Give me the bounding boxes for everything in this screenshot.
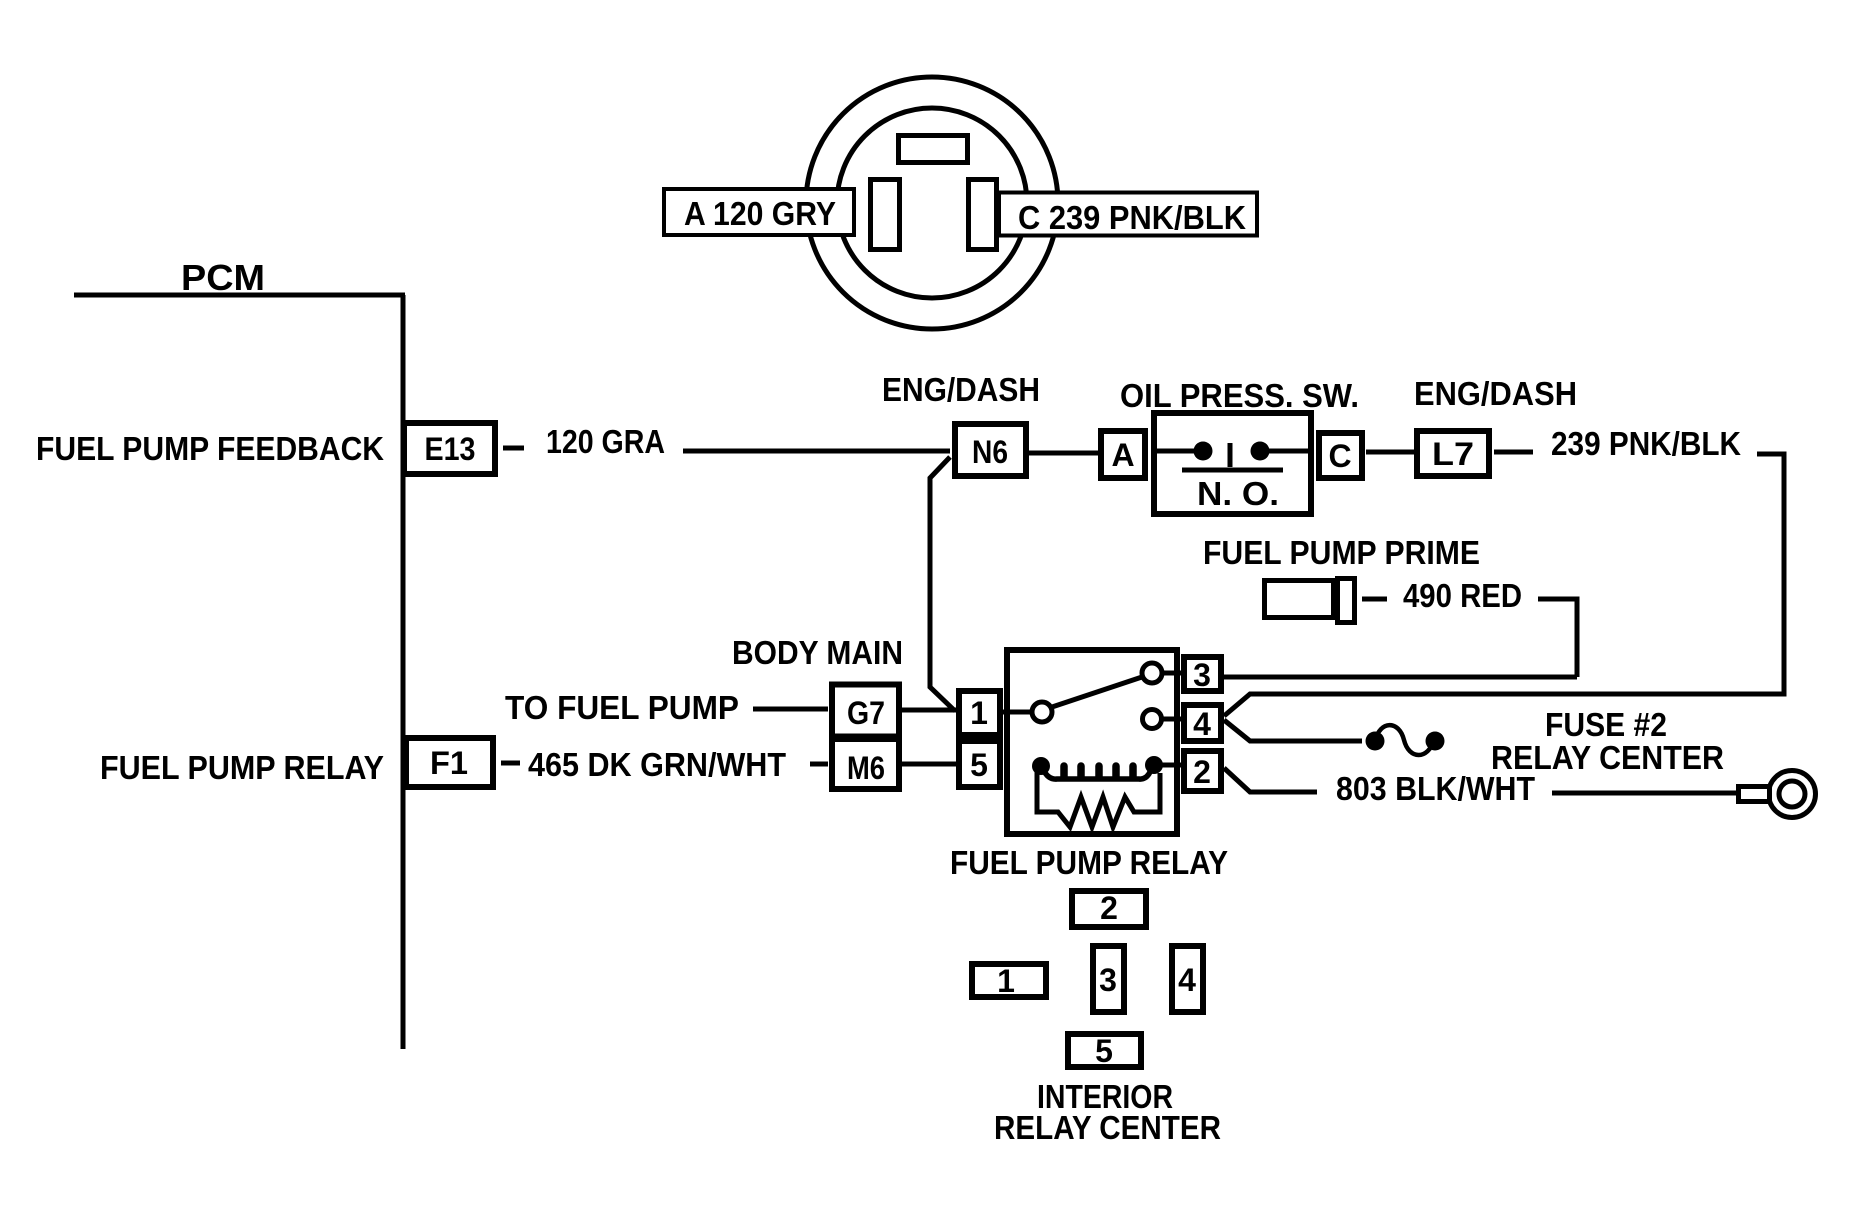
wire G7 to relay pin1 (901, 708, 956, 713)
relay resistor (1037, 772, 1160, 827)
connector J1 inner circle (837, 108, 1027, 298)
svg-text:FUEL PUMP RELAY: FUEL PUMP RELAY (950, 844, 1228, 881)
svg-text:1: 1 (997, 963, 1015, 999)
relay center cavity 3 (1093, 946, 1124, 1012)
ring terminal eyelet inner (1779, 781, 1805, 807)
relay switch NO contact (1142, 663, 1162, 683)
wire stub F1 (501, 761, 520, 766)
svg-text:FUEL PUMP FEEDBACK: FUEL PUMP FEEDBACK (36, 430, 384, 467)
svg-text:FUSE #2: FUSE #2 (1545, 706, 1667, 743)
PCM vertical wire (401, 295, 406, 1049)
wire pin2 to 803 (1224, 768, 1317, 792)
relay pin 1 (959, 691, 1000, 735)
wire NC contact to pin4 (1161, 717, 1181, 722)
PCM top wire (74, 293, 405, 298)
terminal E13 (404, 423, 495, 474)
ring terminal barrel (1739, 787, 1770, 802)
switch wire left (1151, 449, 1194, 454)
svg-text:1: 1 (970, 695, 988, 731)
svg-text:465 DK GRN/WHT: 465 DK GRN/WHT (528, 746, 786, 783)
svg-text:N. O.: N. O. (1197, 475, 1279, 512)
svg-text:L7: L7 (1432, 436, 1474, 472)
svg-text:FUEL PUMP RELAY: FUEL PUMP RELAY (100, 749, 384, 786)
relay pin 4 (1184, 705, 1221, 742)
svg-text:FUEL PUMP PRIME: FUEL PUMP PRIME (1203, 534, 1480, 571)
relay coil node right (1145, 756, 1163, 774)
relay center cavity 2 (1072, 890, 1146, 927)
switch bar (1182, 468, 1283, 473)
relay center cavity 1 (972, 963, 1046, 999)
svg-text:TO FUEL PUMP: TO FUEL PUMP (505, 689, 739, 726)
wire 120 GRA to N6 (683, 449, 950, 454)
relay coil (1043, 766, 1152, 779)
svg-text:3: 3 (1099, 962, 1117, 998)
relay coil node left (1032, 757, 1050, 775)
svg-text:ENG/DASH: ENG/DASH (882, 371, 1040, 408)
svg-text:BODY MAIN: BODY MAIN (732, 634, 903, 671)
wire NO contact to pin3 (1162, 671, 1181, 676)
wire N6 down to relay pin1 (930, 457, 955, 711)
terminal A (1101, 431, 1145, 478)
wire C to L7 (1366, 450, 1414, 455)
relay pin 3 (1184, 657, 1221, 693)
wire stub L7 (1494, 450, 1533, 455)
wire 239 to corner and down to pin4 (1224, 454, 1784, 716)
svg-text:A 120 GRY: A 120 GRY (684, 195, 836, 232)
terminal G7 (832, 685, 899, 737)
svg-text:F1: F1 (430, 745, 468, 781)
svg-text:C 239 PNK/BLK: C 239 PNK/BLK (1018, 199, 1246, 236)
wire coil to pin2 (1160, 763, 1181, 768)
relay center cavity 4 (1172, 946, 1203, 1012)
wire pin4 lower to fuse (1224, 720, 1362, 741)
fuel pump relay box (1007, 650, 1177, 834)
svg-text:C: C (1328, 438, 1351, 474)
oil pressure switch box (1154, 413, 1311, 514)
switch contact right (1251, 442, 1270, 461)
terminal L7 (1417, 431, 1489, 476)
wire pin1 to switch (1003, 710, 1031, 715)
wire 803 to ring terminal (1552, 791, 1740, 796)
wire pin3 to 490 RED (1224, 675, 1577, 680)
svg-text:N6: N6 (972, 434, 1008, 470)
svg-text:G7: G7 (847, 695, 885, 731)
svg-text:E13: E13 (425, 431, 476, 467)
connector J1 pin A slot (871, 180, 900, 250)
ring terminal eyelet outer (1769, 771, 1816, 818)
svg-text:2: 2 (1193, 754, 1211, 790)
switch actuator tick (1228, 443, 1233, 467)
svg-text:2: 2 (1100, 890, 1118, 926)
wire stub before M6 (810, 762, 828, 767)
relay switch common contact (1032, 702, 1052, 722)
relay pin 5 (959, 741, 1000, 787)
connector J1 pin C slot (969, 180, 997, 250)
relay center cavity 5 (1068, 1033, 1141, 1069)
switch contact left (1194, 442, 1213, 461)
svg-text:OIL PRESS. SW.: OIL PRESS. SW. (1120, 377, 1359, 414)
switch wire right (1269, 449, 1314, 454)
wire stub prime (1362, 597, 1387, 602)
relay switch NC contact (1143, 710, 1162, 729)
terminal F1 (406, 738, 493, 787)
wire stub E13 (503, 446, 524, 451)
svg-text:120 GRA: 120 GRA (546, 423, 665, 460)
wire M6 to relay pin5 (901, 762, 956, 767)
svg-text:PCM: PCM (181, 257, 265, 298)
label box C 239 PNK/BLK (999, 193, 1257, 237)
fuel pump prime connector tip (1338, 579, 1355, 623)
wire TO FUEL PUMP to G7 (753, 707, 828, 712)
svg-text:803 BLK/WHT: 803 BLK/WHT (1336, 770, 1535, 807)
svg-text:239 PNK/BLK: 239 PNK/BLK (1551, 425, 1741, 462)
fuse terminal left (1366, 732, 1385, 751)
connector J1 outer circle (806, 77, 1058, 329)
connector J1 top key slot (899, 136, 968, 163)
svg-text:RELAY CENTER: RELAY CENTER (994, 1109, 1221, 1146)
svg-text:5: 5 (1095, 1033, 1113, 1069)
svg-text:490 RED: 490 RED (1403, 577, 1522, 614)
fuse element (1375, 725, 1434, 755)
wire 490 RED down to pin3 wire (1538, 599, 1577, 677)
relay switch blade (1052, 677, 1142, 707)
fuse terminal right (1426, 732, 1445, 751)
svg-text:5: 5 (970, 747, 988, 783)
svg-text:M6: M6 (847, 750, 885, 786)
svg-text:A: A (1111, 437, 1134, 473)
svg-text:4: 4 (1178, 962, 1196, 998)
fuel pump prime connector body (1265, 581, 1334, 618)
terminal M6 (832, 739, 899, 789)
svg-text:3: 3 (1193, 657, 1211, 693)
svg-text:ENG/DASH: ENG/DASH (1414, 375, 1577, 412)
label box A 120 GRY (664, 189, 854, 235)
relay pin 2 (1184, 751, 1221, 791)
terminal N6 (955, 424, 1026, 476)
wire N6 to A (1029, 451, 1098, 456)
terminal C (1319, 433, 1362, 478)
svg-text:4: 4 (1193, 706, 1211, 742)
